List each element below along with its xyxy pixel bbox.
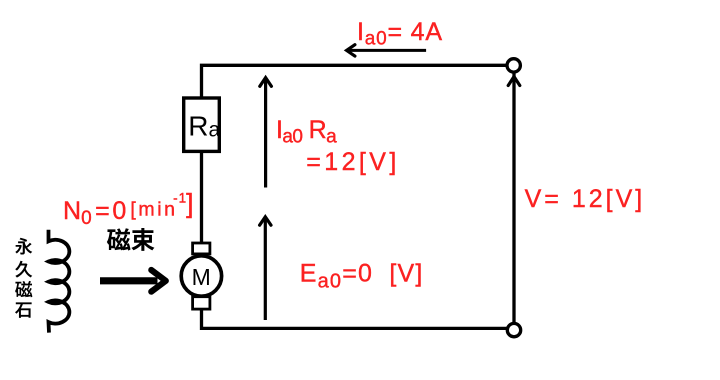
- svg-text:N0=0[min-1]: N0=0[min-1]: [63, 189, 194, 230]
- flux arrow shaft (thick, points right): [100, 277, 158, 284]
- motor brush bottom: [193, 297, 210, 309]
- arrow for Ea0 voltage shaft (up): [264, 219, 267, 321]
- label permanent-magnet kanji 石: [15, 302, 32, 318]
- svg-text:V= 12[V]: V= 12[V]: [525, 185, 646, 213]
- motor circle: [181, 256, 221, 296]
- coil of permanent magnet field: [49, 230, 70, 333]
- wire: bottom side from motor to bottom-right terminal: [202, 309, 508, 329]
- resistor Ra box: [184, 98, 220, 151]
- svg-text:Ea0=0 [V]: Ea0=0 [V]: [300, 260, 424, 293]
- terminal top-right: [507, 59, 520, 72]
- svg-text:Ia0= 4A: Ia0= 4A: [357, 18, 443, 50]
- svg-text:Ia0 Ra: Ia0 Ra: [276, 116, 337, 148]
- arrowhead of V on right wire (points up): [508, 77, 520, 86]
- svg-text:M: M: [192, 264, 211, 290]
- wire: left side between resistor and motor: [200, 151, 203, 244]
- motor brush top: [193, 243, 210, 254]
- svg-text:=12[V]: =12[V]: [306, 148, 399, 176]
- wire: right side between terminals: [512, 73, 515, 324]
- arrow for Ia0*Ra voltage shaft (up): [264, 80, 267, 188]
- label flux kanji 磁: [107, 228, 131, 250]
- wire: top side from left corner to top-right terminal: [202, 65, 507, 98]
- current arrow Ia0 shaft (points left): [348, 49, 426, 52]
- arrow for Ea0 voltage head: [260, 217, 271, 225]
- arrow for Ia0*Ra voltage head: [260, 78, 272, 87]
- terminal bottom-right: [507, 323, 520, 336]
- label flux kanji 束: [131, 228, 154, 251]
- label permanent-magnet kanji 磁: [15, 281, 32, 297]
- current arrow Ia0 head: [347, 45, 355, 56]
- label permanent-magnet kanji 久: [15, 261, 32, 278]
- flux arrow head: [151, 270, 166, 292]
- label permanent-magnet kanji 永: [15, 238, 32, 255]
